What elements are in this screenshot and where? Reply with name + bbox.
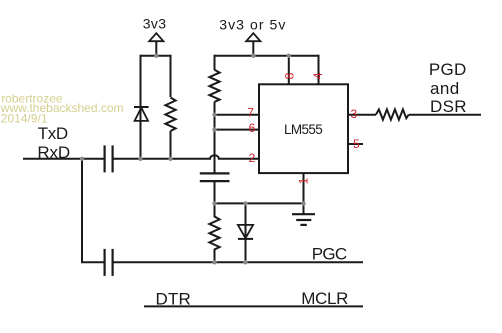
svg-text:LM555: LM555 bbox=[284, 122, 323, 137]
op-amp timer IC U1 LM555 box bbox=[259, 84, 348, 173]
power symbol 3v3-or-5v (arrow) bbox=[246, 33, 260, 56]
svg-text:3v3: 3v3 bbox=[143, 15, 166, 31]
pin 4 label (rotated) bbox=[311, 72, 325, 79]
ground symbol bbox=[292, 214, 315, 225]
pin 8 label (rotated) bbox=[283, 72, 297, 79]
wire 3v3 rail bbox=[141, 55, 171, 57]
wire right branch lower bbox=[170, 131, 172, 159]
wire left branch upper bbox=[140, 55, 142, 107]
wire pin1 down from IC bbox=[303, 173, 305, 214]
wire left branch lower bbox=[140, 107, 142, 159]
wire pin5 stub bbox=[348, 143, 363, 145]
wire pin3 right segment to PGD/DSR bbox=[409, 114, 481, 116]
capacitor C3 bbox=[200, 173, 230, 181]
wire pin7 bbox=[215, 114, 260, 116]
junction at TxD branch bbox=[80, 157, 84, 161]
svg-text:6: 6 bbox=[249, 121, 256, 135]
wire C3 bottom to junction bbox=[214, 181, 216, 203]
junction at D1 bottom bbox=[138, 157, 142, 161]
wire ground link bbox=[215, 202, 304, 204]
junction at 5v feed bbox=[251, 54, 255, 58]
wire PGC line bbox=[113, 261, 363, 263]
capacitor C2 (series coupling) bbox=[105, 249, 113, 276]
diode D2 with leads (cathode down) bbox=[238, 203, 253, 262]
junction at C3 bottom bbox=[212, 201, 216, 205]
svg-text:3: 3 bbox=[350, 107, 357, 121]
wire pin6 bbox=[215, 129, 260, 131]
diode D1 (clamp to 3v3, cathode up) bbox=[134, 107, 149, 121]
svg-text:DSR: DSR bbox=[430, 97, 467, 116]
junction at ground bbox=[301, 201, 305, 205]
junction at 3v3 feed bbox=[154, 54, 158, 58]
junction at D2 top bbox=[243, 201, 247, 205]
power symbol 3v3 (arrow) bbox=[149, 33, 163, 56]
svg-text:8: 8 bbox=[283, 72, 297, 79]
capacitor C1 (series coupling) bbox=[105, 145, 113, 172]
resistor R4 (horizontal) bbox=[376, 109, 409, 119]
svg-text:1: 1 bbox=[297, 177, 311, 184]
junction at R2 bottom bbox=[212, 260, 216, 264]
svg-text:4: 4 bbox=[311, 72, 325, 79]
resistor R1 bbox=[165, 98, 175, 132]
junction at D2 bottom bbox=[243, 260, 247, 264]
junction at pin7 bbox=[212, 113, 216, 117]
svg-text:5: 5 bbox=[353, 137, 360, 151]
svg-text:PGC: PGC bbox=[312, 244, 347, 263]
junction at pin6 bbox=[212, 127, 216, 131]
wire 5v rail bbox=[215, 55, 319, 57]
svg-text:2014/9/1: 2014/9/1 bbox=[1, 111, 48, 125]
wire pin4 drop bbox=[318, 55, 320, 85]
wire top of R3 bbox=[214, 55, 216, 70]
svg-text:MCLR: MCLR bbox=[301, 289, 348, 308]
wire PGC stub to C2 bbox=[81, 261, 105, 263]
svg-text:and: and bbox=[430, 79, 459, 98]
wire pin3 left segment bbox=[348, 114, 376, 116]
svg-text:PGD: PGD bbox=[429, 60, 466, 79]
pin 1 label (rotated) bbox=[297, 177, 311, 184]
junction at R1 bottom bbox=[168, 157, 172, 161]
svg-text:TxD: TxD bbox=[38, 124, 68, 143]
junction at pin8 drop bbox=[287, 54, 291, 58]
wire right branch upper bbox=[170, 55, 172, 97]
svg-text:RxD: RxD bbox=[37, 143, 70, 162]
wire vertical branch at x82 bbox=[81, 159, 83, 262]
wire DTR/MCLR line bbox=[144, 305, 363, 307]
wire TxD/RxD right segment with hop over vertical bbox=[113, 155, 259, 159]
resistor R2 with leads bbox=[209, 203, 219, 262]
svg-text:2: 2 bbox=[249, 151, 256, 165]
wire R3 bottom to C3 bbox=[214, 102, 216, 174]
wire TxD/RxD left segment bbox=[23, 158, 105, 160]
wire pin8 drop bbox=[288, 56, 290, 85]
svg-text:7: 7 bbox=[247, 106, 254, 120]
resistor R3 bbox=[209, 70, 219, 102]
svg-text:3v3 or 5v: 3v3 or 5v bbox=[219, 17, 285, 33]
